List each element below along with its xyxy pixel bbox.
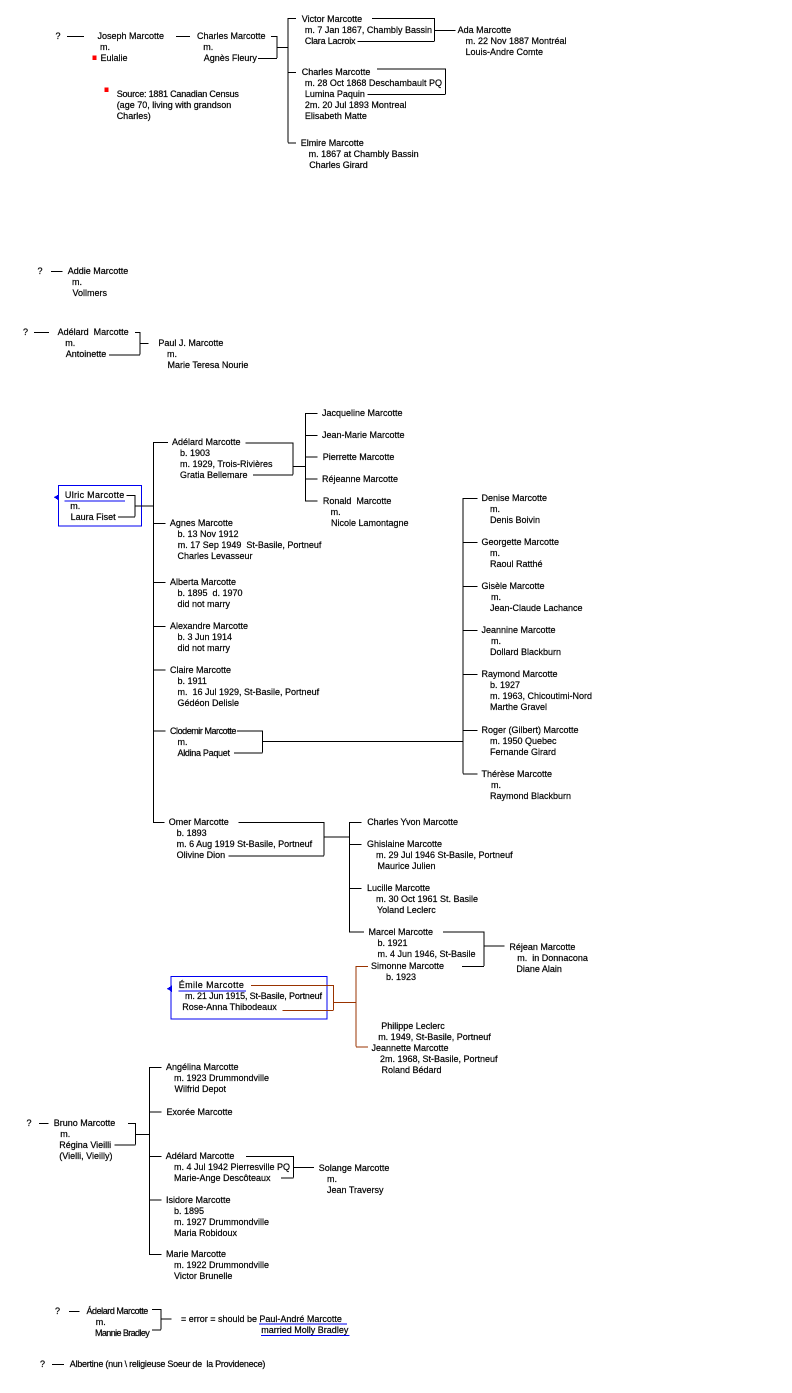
person Clodemir Marcotte bbox=[170, 726, 236, 737]
node ? (unknown, Addie) bbox=[38, 266, 43, 277]
tick Therese bbox=[463, 773, 478, 775]
tick Roger bbox=[463, 730, 478, 732]
bracket Adelard+Gratia bbox=[246, 443, 293, 476]
bracket Charles+Lumina bbox=[368, 69, 446, 95]
person Lucille Marcotte bbox=[367, 883, 430, 894]
person Paul-Andre Marcotte (link) bbox=[259, 1314, 342, 1325]
wire Charles couple to children bbox=[277, 47, 288, 49]
person Philippe Leclerc bbox=[381, 1021, 445, 1032]
tick Denise bbox=[463, 498, 478, 500]
wire Clodemir couple to children bbox=[263, 741, 464, 743]
node ? (unknown parent of Joseph) bbox=[56, 31, 61, 42]
wire Adelard couple to Solange bbox=[294, 1167, 314, 1169]
bullet red square Eulalie bbox=[92, 56, 96, 60]
bullet red square Source bbox=[104, 88, 108, 92]
person Bruno Marcotte bbox=[54, 1118, 116, 1129]
tick Ghislaine bbox=[349, 844, 361, 846]
bracket Adelard+Marie-Ange bbox=[246, 1156, 294, 1178]
tick Jeannette (brown) bbox=[356, 1046, 368, 1048]
person Addie Marcotte bbox=[68, 266, 129, 277]
person Jacqueline Marcotte bbox=[322, 408, 403, 419]
bracket Adelard+Antoinette bbox=[109, 332, 140, 355]
tick Marcel bbox=[349, 931, 364, 933]
person Alexandre Marcotte bbox=[170, 621, 248, 632]
wire ? to Joseph bbox=[67, 36, 84, 38]
bracket Emile+Rose-Anna (brown) bbox=[251, 985, 333, 1010]
bracket Omer+Olivine bbox=[229, 822, 324, 856]
tick Raymond bbox=[463, 674, 478, 676]
person Solange Marcotte bbox=[319, 1163, 390, 1174]
person Simonne Marcotte bbox=[371, 961, 444, 972]
wire Adelard couple to note bbox=[161, 1318, 172, 1320]
person Rejeanne Marcotte bbox=[322, 474, 398, 485]
tick Alexandre bbox=[153, 626, 166, 628]
person Charles Marcotte (son) bbox=[302, 67, 371, 78]
person Adelard Marcotte (son of Ulric) bbox=[172, 437, 241, 448]
tick Elmire bbox=[288, 142, 296, 144]
person Claire Marcotte bbox=[170, 665, 231, 676]
tick Omer bbox=[153, 822, 165, 824]
person Roger (Gilbert) Marcotte bbox=[482, 725, 579, 736]
person Angelina Marcotte bbox=[166, 1062, 239, 1073]
underline married Molly Bradley bbox=[261, 1334, 350, 1336]
person Rejean Marcotte bbox=[509, 942, 575, 953]
tick Rejeanne bbox=[305, 478, 318, 480]
node ? (unknown, Albertine) bbox=[40, 1359, 45, 1370]
tick Gisele bbox=[463, 586, 478, 588]
wire ? to Addie bbox=[51, 271, 63, 273]
person Adelard Marcotte (error entry) bbox=[87, 1306, 148, 1317]
tick Clodemir bbox=[153, 730, 166, 732]
person Isidore Marcotte bbox=[166, 1195, 231, 1206]
tick Alberta bbox=[153, 582, 166, 584]
wire ? to Albertine bbox=[52, 1364, 64, 1366]
person Pierrette Marcotte bbox=[323, 452, 395, 463]
tick Charles Yvon bbox=[349, 822, 361, 824]
person Victor Marcotte bbox=[302, 14, 362, 25]
tick Jean-Marie bbox=[305, 434, 318, 436]
person Agnes Marcotte bbox=[170, 518, 233, 529]
person Ronald Marcotte bbox=[323, 496, 392, 507]
bracket Ulric+Laura bbox=[118, 495, 135, 517]
person Omer Marcotte bbox=[169, 817, 229, 828]
tick Victor bbox=[288, 18, 296, 20]
tick Exoree bbox=[149, 1111, 162, 1113]
note married Molly Bradley (link) bbox=[261, 1325, 348, 1336]
person Elmire Marcotte bbox=[301, 138, 364, 149]
box Ulric (blue) bbox=[59, 485, 142, 526]
wire Omer couple to children bbox=[324, 836, 350, 838]
tick Lucille bbox=[349, 888, 361, 890]
person Joseph Marcotte bbox=[98, 31, 165, 42]
wire ? to Bruno bbox=[39, 1123, 49, 1125]
person Jean-Marie Marcotte bbox=[322, 430, 405, 441]
wire Bruno couple to children bbox=[135, 1134, 149, 1136]
bracket Victor+Clara bbox=[358, 18, 435, 42]
tick Isidore bbox=[149, 1199, 162, 1201]
person Paul J. Marcotte bbox=[158, 338, 223, 349]
wire ? to Adelard (error) bbox=[69, 1311, 80, 1313]
underline Ulric Marcotte bbox=[64, 500, 125, 502]
node ? (unknown, Bruno) bbox=[27, 1118, 32, 1129]
bracket Clodemir+Aldina bbox=[234, 731, 263, 754]
person Gisele Marcotte bbox=[482, 581, 545, 592]
wire Adelard couple to children bbox=[293, 466, 306, 468]
wire Marcel couple to Rejean bbox=[484, 945, 505, 947]
marker triangle Emile bbox=[167, 986, 172, 992]
underline Paul-Andre Marcotte bbox=[259, 1323, 347, 1325]
tick Jacqueline bbox=[305, 413, 318, 415]
person Jeannine Marcotte bbox=[482, 625, 556, 636]
wire Adelard couple to Paul J. bbox=[140, 343, 148, 345]
person Raymond Marcotte bbox=[482, 669, 558, 680]
bracket Bruno+Regina bbox=[115, 1123, 136, 1145]
note error correction bbox=[181, 1314, 257, 1325]
tick Charles son bbox=[288, 72, 296, 74]
person Exoree Marcotte bbox=[167, 1107, 233, 1118]
tick Agnes bbox=[153, 523, 166, 525]
descent line children of Emile (brown) bbox=[355, 966, 357, 1047]
bracket Adelard+Mannie bbox=[152, 1309, 161, 1330]
person Ghislaine Marcotte bbox=[367, 839, 442, 850]
bracket Marcel+Simonne bbox=[443, 932, 484, 967]
bracket Charles+Agnes bbox=[258, 36, 277, 59]
person Ada Marcotte bbox=[458, 25, 512, 36]
person Emile Marcotte (linked) bbox=[179, 980, 245, 991]
wire Ulric couple to children bbox=[135, 505, 154, 507]
note source census bbox=[117, 89, 239, 100]
person Charles Yvon Marcotte bbox=[367, 817, 458, 828]
tick Simonne (brown) bbox=[356, 966, 368, 968]
person Marcel Marcotte bbox=[369, 927, 434, 938]
descent line children of Omer bbox=[348, 822, 350, 932]
tick Marie bbox=[149, 1254, 162, 1256]
person Alberta Marcotte bbox=[170, 577, 236, 588]
node ? (unknown, Adelard/Mannie) bbox=[55, 1306, 60, 1317]
wire Victor couple to Ada bbox=[435, 30, 456, 32]
descent line children of Bruno bbox=[148, 1067, 150, 1254]
person Therese Marcotte bbox=[482, 769, 553, 780]
tick Ronald bbox=[305, 500, 318, 502]
person Ulric Marcotte (linked) bbox=[65, 490, 125, 501]
wire Emile couple to children (brown) bbox=[333, 1002, 356, 1004]
tick Pierrette bbox=[305, 456, 318, 458]
tick Angelina bbox=[149, 1067, 162, 1069]
person Georgette Marcotte bbox=[482, 537, 560, 548]
wire Joseph to Charles bbox=[176, 36, 190, 38]
tick Adelard son of Bruno bbox=[149, 1156, 162, 1158]
person Albertine bbox=[70, 1359, 265, 1370]
descent line children of Adelard bbox=[305, 413, 307, 501]
tick Jeannine bbox=[463, 630, 478, 632]
person Adelard Marcotte (son of Bruno) bbox=[166, 1151, 235, 1162]
underline Emile Marcotte bbox=[178, 990, 246, 992]
tick Claire bbox=[153, 669, 166, 671]
person Marie Marcotte bbox=[166, 1249, 226, 1260]
tick Adelard son bbox=[153, 442, 168, 444]
marker triangle Ulric bbox=[54, 494, 59, 500]
descent line children of Charles bbox=[287, 18, 289, 143]
person Jeannette Marcotte bbox=[372, 1043, 449, 1054]
person Denise Marcotte bbox=[482, 493, 548, 504]
descent line children of Ulric bbox=[153, 442, 155, 822]
person Charles Marcotte bbox=[197, 31, 266, 42]
descent line children of Clodemir bbox=[462, 498, 464, 774]
tick Georgette bbox=[463, 542, 478, 544]
node ? (unknown, Adelard) bbox=[23, 327, 28, 338]
wire ? to Adelard bbox=[34, 332, 49, 334]
person Adelard Marcotte bbox=[58, 327, 129, 338]
box Emile (blue) bbox=[171, 976, 327, 1018]
